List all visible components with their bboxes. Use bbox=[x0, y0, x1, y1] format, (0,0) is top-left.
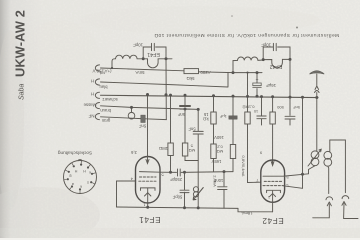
lecher U dip EF42 bbox=[263, 59, 290, 67]
antenna dome bbox=[310, 71, 325, 74]
wire shield drop bbox=[131, 107, 133, 112]
wire 5pF branch bbox=[184, 172, 186, 208]
terminal NF bbox=[95, 114, 99, 120]
resistor 15k bbox=[211, 112, 216, 124]
wire +A line bbox=[101, 68, 185, 71]
wire plug A bbox=[313, 204, 330, 218]
inductor L2 coil EF42 bbox=[233, 57, 263, 61]
wire EF42 loop left riser bbox=[263, 47, 273, 60]
anode arrow EF42 bbox=[271, 161, 274, 166]
resistor 01M b bbox=[230, 145, 235, 159]
wire riser to osc coil bbox=[232, 61, 234, 73]
junction EF42 loop right bbox=[289, 58, 292, 61]
resistor 02M bbox=[211, 144, 216, 159]
capacitor 50pF plates bbox=[180, 190, 189, 192]
variable coil branch bbox=[197, 172, 199, 208]
speck 1 bbox=[296, 27, 298, 29]
junction EF42 loop left bbox=[262, 58, 265, 61]
resistor 5k anode bbox=[184, 69, 199, 74]
junction EF41 loop right bbox=[165, 57, 168, 60]
wire ground bus1 bbox=[101, 95, 319, 97]
wire bus drop grid EF42 bbox=[248, 73, 262, 183]
wire EF41 left loop pin4 bbox=[117, 181, 136, 207]
heater EF41 bbox=[145, 193, 151, 196]
capacitor 10pF EF42 plates bbox=[273, 43, 276, 50]
capacitor 5nF a plates bbox=[180, 105, 190, 107]
wire right vertical from bus bbox=[302, 97, 304, 188]
wire EF42 loop down to bus bbox=[289, 59, 291, 97]
wire bus drop 1uF bbox=[232, 96, 234, 172]
grid g2 EF42 solid bbox=[263, 175, 284, 177]
terminal Masse bbox=[95, 103, 99, 109]
terminal 6,3V bbox=[95, 79, 99, 85]
grid g3 EF42 dashed bbox=[263, 185, 283, 187]
junction masse-shield bbox=[130, 106, 133, 109]
resistor 5M bbox=[182, 143, 187, 156]
shield circle bbox=[128, 112, 135, 119]
lecher U dip EF41 bbox=[147, 59, 172, 68]
wire bus drop 15k chain bbox=[213, 96, 215, 172]
wire masse drop 5nF b bbox=[197, 109, 199, 171]
junction coupling dots bbox=[146, 170, 225, 209]
grid g1 EF42 dashed bbox=[264, 180, 282, 182]
wire 10nF branch bbox=[223, 172, 225, 209]
terminal arc plug A bbox=[326, 197, 333, 200]
wire bus drop 5nF a bbox=[185, 95, 198, 160]
wire EF41 loop down to bus bbox=[165, 59, 167, 120]
grid g3 EF41 dashed bbox=[139, 180, 156, 182]
socket pin ticks bbox=[64, 161, 96, 194]
wire bus drop 01M bbox=[261, 97, 263, 125]
wire EF41 loop left riser bbox=[143, 47, 151, 59]
variable coil arrow bbox=[193, 188, 203, 200]
wire EF41 loop right riser bbox=[156, 47, 166, 59]
wire heater line bbox=[101, 82, 200, 86]
plug arrow A bbox=[327, 202, 331, 206]
terminal H schwarz bbox=[95, 92, 99, 98]
wire bus drop to 1M bbox=[170, 95, 172, 172]
wire antenna down to coil bbox=[316, 98, 318, 152]
terminal +A 250V bbox=[95, 65, 99, 71]
antenna lead bbox=[316, 74, 318, 98]
capacitor 16uF top plate bbox=[253, 83, 261, 86]
resistor 500 screen bbox=[270, 112, 275, 124]
grid g1 EF41 dashed bbox=[140, 176, 157, 178]
wire plug B bbox=[344, 204, 358, 219]
wire cathode EF42 down bbox=[272, 191, 274, 212]
capacitor 250pF plates bbox=[178, 169, 181, 176]
junction EF41 loop left bbox=[142, 57, 145, 60]
capacitor 10pF EF41 plates bbox=[152, 43, 155, 50]
variometer arrow bbox=[308, 149, 321, 166]
cathode EF42 bbox=[267, 190, 281, 192]
wire bottom step right bbox=[238, 208, 273, 211]
tube EF41 envelope bbox=[136, 157, 161, 204]
tube EF42 envelope bbox=[261, 160, 285, 202]
capacitor 5nF c plates bbox=[285, 116, 295, 119]
wire 16uF branch bbox=[256, 73, 258, 97]
wire supply after 5k bbox=[199, 71, 263, 74]
wire anode feed EF41 bbox=[147, 95, 149, 156]
title Saba UKW-AW 2 bbox=[13, 10, 28, 100]
resistor 1M grid EF41 bbox=[168, 143, 173, 156]
wire pinC EF42 out bbox=[283, 186, 302, 189]
junction 16uF top bbox=[256, 71, 259, 74]
capacitor 10nF plates bbox=[218, 187, 227, 190]
heater EF42 bbox=[270, 194, 276, 197]
junction coil riser bbox=[232, 71, 235, 74]
grid g2 EF41 solid bbox=[140, 171, 161, 174]
antenna plug arrow bbox=[315, 91, 320, 93]
inductor L1 anode choke EF41 bbox=[112, 55, 147, 68]
capacitor 5nF series NF bbox=[141, 115, 145, 122]
capacitor 10nF bus plates bbox=[257, 116, 267, 119]
wire masse line bbox=[101, 106, 199, 110]
wire anode EF42 bbox=[272, 97, 274, 163]
wire bottom line left bbox=[117, 207, 239, 208]
wire bus drop 5nF c bbox=[289, 97, 291, 125]
wire coupling line 250pF bbox=[160, 171, 233, 174]
capacitor 5nF b plates bbox=[193, 131, 203, 134]
cathode EF41 bbox=[141, 188, 156, 191]
anode arrow EF41 bbox=[146, 156, 149, 164]
capacitor 16uF plates bbox=[253, 86, 261, 88]
plug arrow B bbox=[342, 202, 346, 206]
wire NF line bbox=[101, 117, 167, 120]
wire ant coil top to plug B bbox=[330, 140, 346, 193]
junction pin5 line bbox=[301, 173, 304, 176]
inductor osc coil L3 bbox=[311, 151, 319, 159]
junction bus dots bbox=[146, 71, 318, 110]
wire heater step down bbox=[199, 72, 228, 87]
wire EF42 loop right riser bbox=[278, 47, 290, 59]
resistor 01M bbox=[245, 112, 250, 124]
socket diagram circle bbox=[64, 161, 97, 194]
inductor ant coil L4 bbox=[324, 151, 332, 159]
socket notch bbox=[78, 160, 82, 161]
variable coil turns bbox=[193, 187, 198, 192]
junction coil tap bbox=[111, 67, 113, 69]
socket pins bbox=[67, 164, 93, 191]
speck 2 bbox=[231, 15, 233, 17]
capacitor 1uF tubular bbox=[229, 116, 237, 120]
terminal arc plug B bbox=[342, 196, 349, 199]
wire pin5 EF42 out bbox=[284, 174, 309, 176]
socket pin labels bbox=[70, 169, 92, 189]
wire cathode EF41 down bbox=[147, 189, 149, 208]
